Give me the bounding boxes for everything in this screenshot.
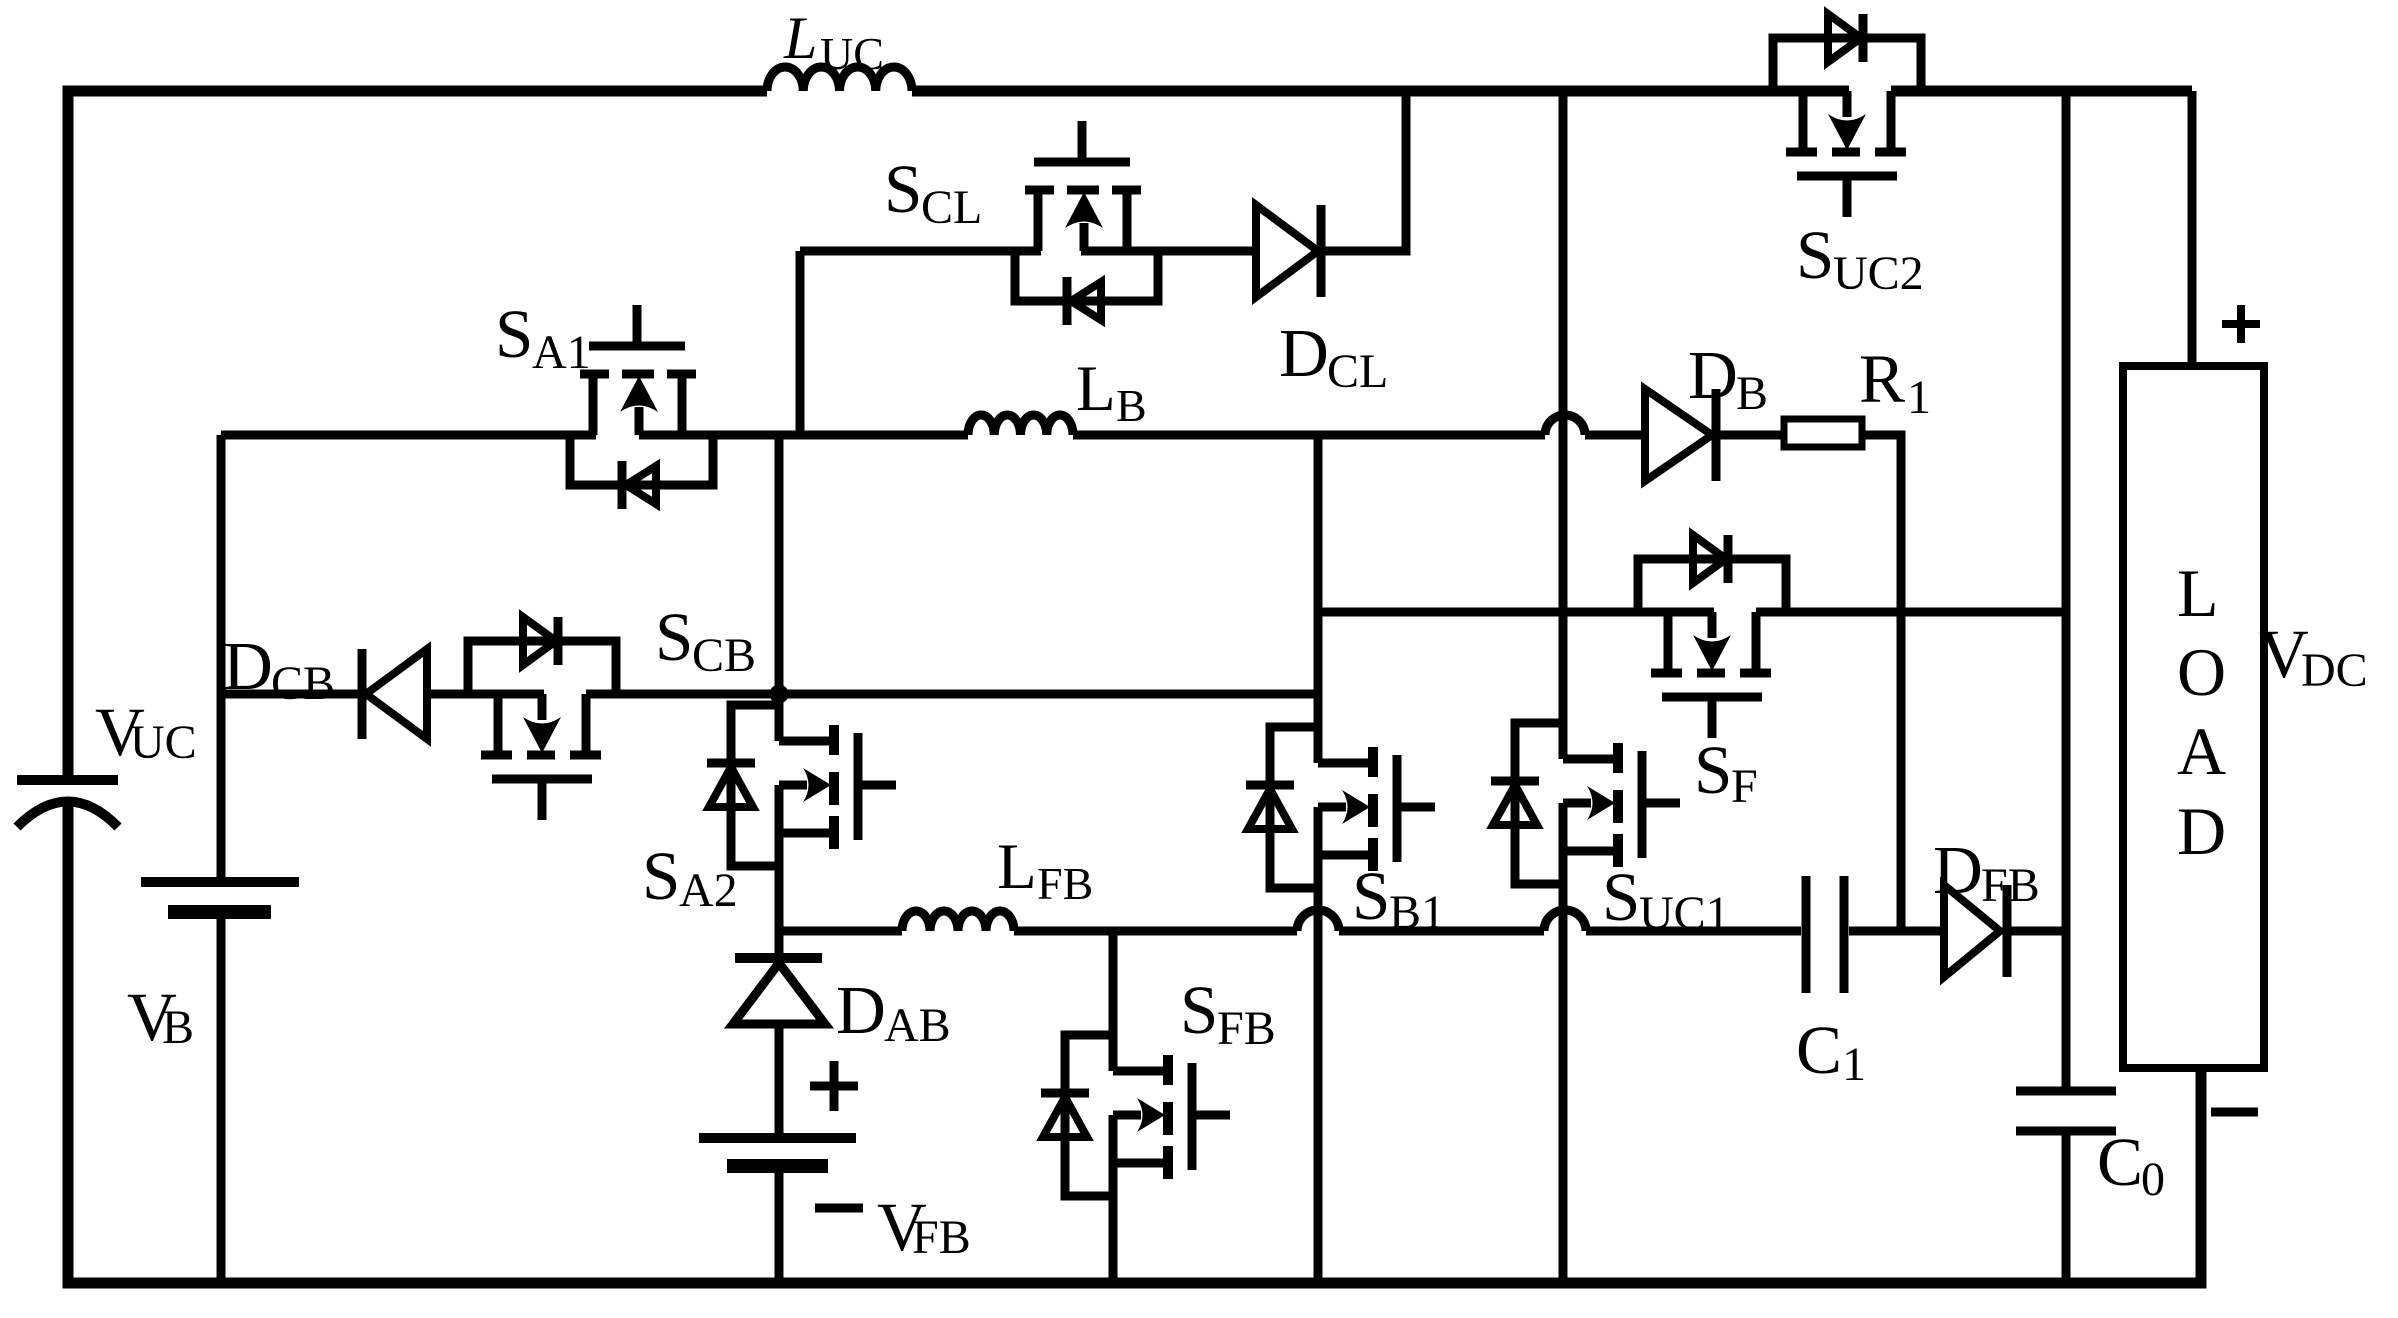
svg-text:UC1: UC1 (1639, 887, 1730, 940)
svg-text:R: R (1859, 341, 1905, 417)
svg-text:S: S (1694, 732, 1732, 808)
svg-text:B: B (162, 1001, 194, 1054)
svg-text:S: S (1180, 972, 1218, 1048)
svg-text:B1: B1 (1389, 886, 1445, 939)
svg-text:CB: CB (271, 657, 335, 710)
svg-text:C: C (2097, 1124, 2143, 1200)
svg-text:FB: FB (1217, 1002, 1276, 1055)
svg-text:1: 1 (1907, 371, 1931, 424)
svg-text:DC: DC (2301, 644, 2368, 697)
svg-text:A1: A1 (532, 326, 591, 379)
svg-text:D: D (223, 628, 273, 704)
svg-text:O: O (2177, 634, 2226, 710)
svg-text:B: B (1736, 367, 1768, 420)
svg-text:B: B (1116, 380, 1147, 431)
svg-text:UC: UC (130, 716, 197, 769)
svg-text:UC: UC (820, 28, 884, 79)
svg-text:L: L (783, 5, 817, 71)
svg-text:S: S (1602, 859, 1640, 935)
svg-text:CB: CB (692, 629, 756, 682)
svg-text:F: F (1731, 760, 1758, 813)
svg-text:D: D (2177, 793, 2226, 869)
svg-text:C: C (1796, 1012, 1842, 1088)
svg-text:CL: CL (1327, 345, 1388, 398)
svg-text:L: L (1076, 353, 1116, 425)
svg-text:S: S (1352, 858, 1390, 934)
svg-text:FB: FB (1037, 858, 1093, 909)
svg-text:FB: FB (912, 1211, 971, 1264)
svg-text:S: S (884, 151, 922, 227)
svg-text:L: L (2177, 555, 2219, 631)
svg-text:UC2: UC2 (1833, 247, 1924, 300)
svg-text:CL: CL (921, 181, 982, 234)
svg-text:A2: A2 (679, 864, 738, 917)
svg-text:S: S (642, 838, 680, 914)
svg-text:1: 1 (1842, 1038, 1866, 1091)
svg-text:L: L (997, 831, 1037, 903)
svg-text:S: S (495, 296, 533, 372)
svg-text:A: A (2177, 713, 2226, 789)
svg-text:D: D (836, 972, 886, 1048)
svg-text:0: 0 (2141, 1153, 2165, 1206)
svg-text:D: D (1688, 337, 1738, 413)
svg-text:FB: FB (1981, 859, 2040, 912)
svg-text:D: D (1933, 832, 1983, 908)
svg-text:S: S (655, 599, 693, 675)
svg-text:S: S (1796, 217, 1834, 293)
svg-text:AB: AB (884, 999, 951, 1052)
svg-text:D: D (1279, 315, 1329, 391)
